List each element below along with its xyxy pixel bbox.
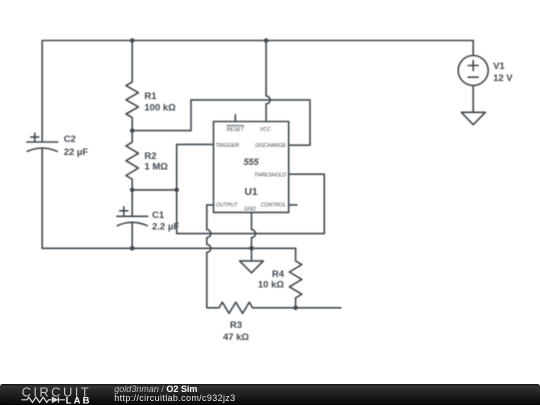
ground symbol at V1 xyxy=(461,112,485,124)
svg-text:555: 555 xyxy=(244,157,260,167)
svg-text:U1: U1 xyxy=(245,187,258,198)
wire ground rail xyxy=(42,247,295,249)
wire left rail to C2 xyxy=(41,41,43,143)
svg-text:VCC: VCC xyxy=(260,127,271,133)
svg-text:R2: R2 xyxy=(144,151,156,162)
node junction R4-R3 xyxy=(293,306,298,311)
capacitor C2 xyxy=(27,133,58,151)
wire top VCC rail xyxy=(42,40,473,42)
node junction R2-C1 xyxy=(130,188,135,193)
svg-text:C2: C2 xyxy=(64,134,76,145)
wire GND pin to ground node (with hop) xyxy=(252,212,256,248)
svg-text:22 µF: 22 µF xyxy=(64,147,89,158)
svg-text:OUTPUT: OUTPUT xyxy=(216,203,238,209)
wire VCC pin to top rail (with hop) xyxy=(266,41,270,122)
wire OUTPUT pin down to R3 (with hops) xyxy=(207,205,219,308)
capacitor C1 xyxy=(117,190,148,248)
svg-text:RESET: RESET xyxy=(227,127,245,133)
footer credit text xyxy=(114,384,235,403)
svg-text:CONTROL: CONTROL xyxy=(261,203,286,209)
svg-text:C1: C1 xyxy=(152,210,165,221)
node junction trigger-threshold tap xyxy=(174,188,179,193)
svg-text:THRESHOLD: THRESHOLD xyxy=(254,173,286,179)
node junction R1-R2 xyxy=(130,128,135,133)
wire R2 bottom junction to trigger tap xyxy=(132,189,177,191)
svg-text:10 kΩ: 10 kΩ xyxy=(258,279,284,290)
pin label RESET (active-low overbar) xyxy=(227,125,245,127)
svg-text:LAB: LAB xyxy=(66,395,92,405)
resistor R4 xyxy=(289,248,301,307)
resistor R2 xyxy=(126,131,138,190)
resistor R1 xyxy=(126,41,138,131)
svg-text:http://circuitlab.com/c932jz3: http://circuitlab.com/c932jz3 xyxy=(114,393,235,403)
svg-text:DISCHARGE: DISCHARGE xyxy=(255,143,286,149)
voltage source V1 xyxy=(458,41,488,113)
svg-text:1 MΩ: 1 MΩ xyxy=(144,162,168,173)
ground symbol at GND xyxy=(240,248,264,272)
svg-text:12 V: 12 V xyxy=(493,73,513,84)
pin stub RESET xyxy=(234,115,236,122)
svg-text:R3: R3 xyxy=(230,320,242,331)
svg-text:R1: R1 xyxy=(144,91,157,102)
node junction GND ground rail xyxy=(249,246,254,251)
svg-text:47 kΩ: 47 kΩ xyxy=(223,332,249,343)
pin stub CONTROL xyxy=(289,204,297,206)
svg-text:V1: V1 xyxy=(493,61,505,72)
svg-text:TRIGGER: TRIGGER xyxy=(215,143,239,149)
node junction VCC top rail xyxy=(264,38,269,43)
wire R1/R2 junction to DISCHARGE pin xyxy=(132,100,310,145)
resistor R3 xyxy=(219,302,253,313)
node junction R1 top rail xyxy=(130,38,135,43)
wire C2 bottom to ground rail xyxy=(41,148,43,248)
svg-text:100 kΩ: 100 kΩ xyxy=(144,102,176,113)
svg-text:2.2 µF: 2.2 µF xyxy=(152,221,179,232)
IC U1 555 timer body xyxy=(214,122,289,213)
node junction C1 ground rail xyxy=(130,246,135,251)
wire tap to THRESHOLD pin xyxy=(177,174,325,233)
svg-text:GND: GND xyxy=(244,207,256,213)
footer bar xyxy=(0,384,540,405)
wire tap to TRIGGER pin xyxy=(177,144,214,190)
wire R3 to open end xyxy=(253,307,341,309)
CircuitLab logo xyxy=(21,384,91,405)
